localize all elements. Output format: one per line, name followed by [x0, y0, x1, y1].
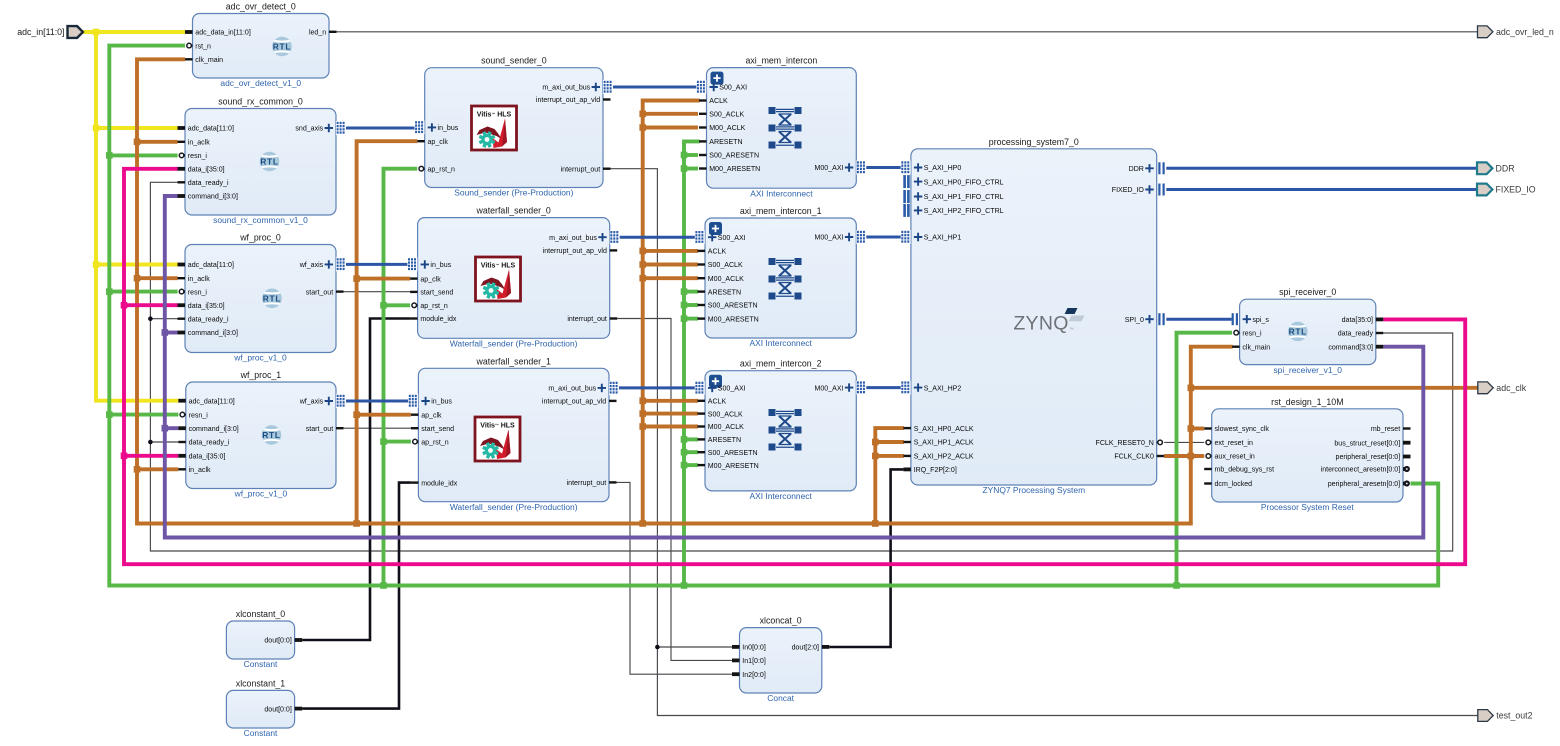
- wire xlconstant_1 dout to waterfall_sender_1 module_idx: [302, 483, 411, 709]
- svg-text:interconnect_aresetn[0:0]: interconnect_aresetn[0:0]: [1321, 467, 1401, 474]
- svg-text:ap_clk: ap_clk: [421, 412, 442, 419]
- pin interrupt_out (waterfall_sender_0, right): [567, 316, 617, 323]
- pin S00_ACLK (axi_mem_intercon_1, left): [698, 262, 743, 269]
- pin rst_n (adc_ovr_detect_0, left): [187, 43, 211, 50]
- svg-text:resn_i: resn_i: [188, 153, 208, 160]
- svg-text:Concat: Concat: [767, 693, 794, 703]
- block axi_mem_intercon_2: [695, 359, 867, 501]
- svg-text:RTL: RTL: [273, 42, 291, 52]
- svg-text:spi_receiver_0: spi_receiver_0: [1279, 287, 1336, 297]
- pin In0[0:0] (xlconcat_0, left): [732, 645, 766, 652]
- svg-text:M00_ACLK: M00_ACLK: [708, 276, 744, 283]
- svg-text:interrupt_out_ap_vld: interrupt_out_ap_vld: [536, 97, 600, 104]
- svg-text:S00_ARESETN: S00_ARESETN: [708, 450, 758, 457]
- junction adc_in at sound_rx_common: [93, 125, 100, 132]
- svg-text:dout[0:0]: dout[0:0]: [264, 706, 291, 713]
- junction clk at S00_ACLK intercon: [639, 111, 646, 118]
- wire clk branch wf_proc_0 in_aclk: [137, 276, 178, 280]
- wire adc_in to adc_ovr_detect adc_data_in: [83, 30, 185, 34]
- pin peripheral_aresetn[0:0] (rst_design_1_10M, right): [1328, 480, 1410, 488]
- svg-text:M00_ARESETN: M00_ARESETN: [708, 316, 759, 323]
- pin adc_data[11:0] (sound_rx_common_0, left): [178, 126, 234, 133]
- svg-text:in_aclk: in_aclk: [188, 140, 210, 147]
- svg-text:led_n: led_n: [309, 30, 326, 37]
- block wf_proc_0: [178, 233, 347, 363]
- svg-text:Processor System Reset: Processor System Reset: [1261, 502, 1354, 512]
- svg-text:wf_axis: wf_axis: [299, 399, 324, 406]
- bus ZYNQ SPI_0 to spi_receiver spi_s: [1166, 318, 1231, 321]
- svg-text:wf_axis: wf_axis: [299, 262, 324, 269]
- junction data at wf_proc_0: [121, 302, 128, 309]
- bus waterfall_sender_0 m_axi to intercon1 S00_AXI: [619, 236, 695, 239]
- svg-text:interrupt_out_ap_vld: interrupt_out_ap_vld: [542, 399, 606, 406]
- svg-text:adc_ovr_detect_0: adc_ovr_detect_0: [226, 2, 296, 12]
- pin ap_clk (waterfall_sender_0, left): [410, 276, 441, 283]
- svg-text:AXI Interconnect: AXI Interconnect: [749, 491, 812, 501]
- wire waterfall_sender_0 interrupt_out to xlconcat In1: [617, 319, 732, 661]
- external interface port DDR: [1477, 162, 1515, 174]
- expand icon axi_mem_intercon_2: [709, 375, 722, 388]
- svg-text:dcm_locked: dcm_locked: [1215, 481, 1253, 488]
- block spi_receiver_0: [1232, 287, 1384, 375]
- junction resetn at ARESETN intercon2: [681, 436, 688, 443]
- junction clk at M00_ACLK intercon1: [639, 275, 646, 282]
- svg-text:M00_AXI: M00_AXI: [815, 165, 844, 172]
- svg-text:snd_axis: snd_axis: [295, 126, 323, 133]
- pin data_i[35:0] (wf_proc_0, left): [178, 303, 225, 310]
- junction clk trunk riser2: [639, 520, 646, 527]
- svg-text:interrupt_out: interrupt_out: [567, 480, 607, 487]
- svg-text:data_ready_i: data_ready_i: [188, 180, 229, 187]
- svg-text:data_i[35:0]: data_i[35:0]: [188, 303, 225, 310]
- pin mb_debug_sys_rst (rst_design_1_10M, left): [1204, 467, 1274, 474]
- svg-text:AXI Interconnect: AXI Interconnect: [750, 188, 813, 198]
- svg-text:S00_AXI: S00_AXI: [719, 85, 747, 92]
- pin data_ready_i (sound_rx_common_0, left): [178, 180, 229, 187]
- svg-text:sound_sender_0: sound_sender_0: [481, 56, 547, 66]
- junction resetn at S00_ARESETN intercon1: [681, 302, 688, 309]
- pin dout[2:0] (xlconcat_0, right): [792, 645, 830, 652]
- pin start_out (wf_proc_0, right): [306, 289, 344, 296]
- pin M00_AXI (axi_mem_intercon_2, right): [815, 381, 867, 395]
- pin in_bus (waterfall_sender_1, left): [408, 394, 452, 408]
- pin resn_i (sound_rx_common_0, left): [179, 153, 207, 160]
- wire clk branch S00_ACLK intercon2: [643, 412, 698, 416]
- pin ap_clk (sound_sender_0, left): [417, 139, 448, 146]
- svg-text:axi_mem_intercon: axi_mem_intercon: [745, 56, 817, 66]
- svg-text:axi_mem_intercon_1: axi_mem_intercon_1: [740, 206, 822, 216]
- IP icon sound_rx_common_0: [259, 152, 281, 172]
- pin ap_clk (waterfall_sender_1, left): [411, 412, 442, 419]
- svg-text:spi_s: spi_s: [1252, 317, 1269, 324]
- wire clk branch waterfall_sender_1 ap_clk: [357, 413, 411, 417]
- wire resetn riser for HLS senders: [384, 169, 418, 586]
- junction resetn at S00_ARESETN intercon: [681, 152, 688, 159]
- svg-text:data_ready_i: data_ready_i: [189, 440, 230, 447]
- junction resetn at M00_ARESETN intercon2: [681, 462, 688, 469]
- svg-text:waterfall_sender_0: waterfall_sender_0: [475, 206, 550, 216]
- wire command branch wf_proc_1 command_i: [165, 426, 179, 430]
- pin m_axi_out_bus (waterfall_sender_1, right): [548, 381, 619, 395]
- wire data_ready branch to wf_proc_1: [150, 441, 178, 443]
- svg-text:S_AXI_HP0: S_AXI_HP0: [924, 165, 962, 172]
- svg-text:FIXED_IO: FIXED_IO: [1112, 187, 1145, 194]
- wire sound_sender_0 interrupt_out down to test_out2: [611, 169, 1478, 716]
- svg-text:dout[2:0]: dout[2:0]: [792, 645, 819, 652]
- wire clk riser ZYNQ HP ACLKs: [875, 428, 904, 523]
- junction clk at sound_rx: [134, 139, 141, 146]
- pin M00_ARESETN (axi_mem_intercon_1, left): [698, 316, 759, 323]
- pin command[3:0] (spi_receiver_0, right): [1328, 344, 1383, 351]
- svg-text:command_i[3:0]: command_i[3:0]: [188, 194, 238, 201]
- IP icon waterfall_sender_0: [476, 257, 521, 301]
- pin S_AXI_HP2 (processing_system7_0, left): [901, 381, 962, 395]
- pin S00_ARESETN (axi_mem_intercon_1, left): [698, 303, 758, 310]
- junction clk at S00_ACLK intercon2: [639, 410, 646, 417]
- svg-text:S_AXI_HP0_FIFO_CTRL: S_AXI_HP0_FIFO_CTRL: [924, 179, 1004, 186]
- wire resetn branch S00_ARESETN intercon1: [684, 303, 698, 307]
- wire clk branch M00_ACLK intercon1: [643, 276, 698, 280]
- junction resetn trunk riser3: [1173, 582, 1180, 589]
- svg-text:data_ready_i: data_ready_i: [188, 316, 229, 323]
- svg-text:S00_AXI: S00_AXI: [718, 386, 746, 393]
- svg-text:data_i[35:0]: data_i[35:0]: [189, 454, 226, 461]
- junction clk at ACLK intercon2: [639, 398, 646, 405]
- svg-text:module_idx: module_idx: [421, 480, 458, 487]
- wire peripheral_aresetn trunk: [109, 46, 1438, 586]
- pin FIXED_IO (processing_system7_0, right): [1112, 184, 1165, 196]
- wire FCLK_CLK0 trunk: [137, 59, 1233, 523]
- pin in_aclk (wf_proc_1, left): [178, 467, 211, 474]
- pin dout[0:0] (xlconstant_1, right): [264, 706, 302, 713]
- svg-text:xlconstant_0: xlconstant_0: [236, 609, 285, 619]
- junction resetn at sound_rx_common: [106, 152, 113, 159]
- svg-text:rst_n: rst_n: [195, 43, 211, 50]
- wire clk branch S_AXI_HP1_ACLK: [875, 440, 904, 444]
- pin In1[0:0] (xlconcat_0, left): [732, 658, 766, 665]
- svg-text:rst_design_1_10M: rst_design_1_10M: [1271, 397, 1343, 407]
- pin interrupt_out (sound_sender_0, right): [561, 166, 611, 173]
- junction clk at waterfall_sender_1: [353, 411, 360, 418]
- wire data_ready branch to wf_proc_0: [150, 318, 177, 320]
- svg-text:adc_data[11:0]: adc_data[11:0]: [189, 398, 235, 405]
- wire clk branch slowest_sync_clk: [1191, 427, 1204, 431]
- svg-text:Waterfall_sender (Pre-Producti: Waterfall_sender (Pre-Production): [450, 502, 578, 512]
- svg-text:RTL: RTL: [260, 157, 278, 167]
- wire resetn riser for interconnects: [684, 141, 700, 585]
- pin S_AXI_HP0 (processing_system7_0, left): [901, 161, 962, 175]
- svg-text:FCLK_CLK0: FCLK_CLK0: [1114, 454, 1154, 461]
- pin M00_ARESETN (axi_mem_intercon_2, left): [698, 463, 759, 470]
- svg-text:S_AXI_HP2_ACLK: S_AXI_HP2_ACLK: [914, 454, 974, 461]
- pin S_AXI_HP1 (processing_system7_0, left): [901, 230, 962, 244]
- svg-text:S00_ARESETN: S00_ARESETN: [708, 303, 758, 310]
- bus intercon1 M00_AXI to ZYNQ S_AXI_HP1: [866, 236, 901, 239]
- block xlconcat_0: [732, 616, 829, 704]
- svg-text:sound_rx_common_0: sound_rx_common_0: [218, 97, 303, 107]
- junction resetn at wf_proc_0: [106, 288, 113, 295]
- pin clk_main (spi_receiver_0, left): [1232, 344, 1270, 351]
- svg-text:SPI_0: SPI_0: [1125, 317, 1144, 324]
- svg-text:interrupt_out_ap_vld: interrupt_out_ap_vld: [543, 248, 607, 255]
- pin interrupt_out_ap_vld (waterfall_sender_0, right): [543, 248, 618, 255]
- pin adc_data_in[11:0] (adc_ovr_detect_0, left): [185, 30, 251, 37]
- svg-text:module_idx: module_idx: [420, 316, 457, 323]
- wire clk branch S00_ACLK intercon: [643, 112, 698, 116]
- junction resetn at M00_ARESETN intercon1: [681, 315, 688, 322]
- junction clk at HP2_ACLK: [872, 453, 879, 460]
- pin M00_AXI (axi_mem_intercon_1, right): [815, 230, 867, 244]
- svg-text:waterfall_sender_1: waterfall_sender_1: [476, 356, 551, 366]
- pin adc_data[11:0] (wf_proc_0, left): [178, 262, 234, 269]
- junction interrupt_out net at In0 branch: [655, 645, 660, 650]
- svg-text:Sound_sender (Pre-Production): Sound_sender (Pre-Production): [454, 188, 573, 198]
- svg-text:clk_main: clk_main: [195, 57, 223, 64]
- svg-text:ap_rst_n: ap_rst_n: [420, 303, 448, 310]
- svg-text:RTL: RTL: [1289, 327, 1307, 337]
- pin slowest_sync_clk (rst_design_1_10M, left): [1204, 426, 1269, 433]
- wire clk branch ACLK intercon1: [643, 249, 698, 253]
- pin ARESETN (axi_mem_intercon, left): [699, 139, 743, 146]
- svg-text:mb_reset: mb_reset: [1371, 426, 1400, 433]
- svg-text:m_axi_out_bus: m_axi_out_bus: [548, 386, 596, 393]
- block xlconstant_1: [226, 678, 302, 738]
- pin M00_ARESETN (axi_mem_intercon, left): [699, 166, 760, 173]
- svg-text:ARESETN: ARESETN: [708, 289, 741, 296]
- svg-text:S_AXI_HP2: S_AXI_HP2: [924, 385, 962, 392]
- IP icon axi_mem_intercon: [769, 107, 802, 149]
- junction command at wf_proc_0: [162, 329, 169, 336]
- IP icon axi_mem_intercon_2: [769, 409, 802, 451]
- svg-text:command_i[3:0]: command_i[3:0]: [189, 426, 239, 433]
- svg-text:processing_system7_0: processing_system7_0: [989, 137, 1079, 147]
- pin S_AXI_HP1_ACLK (processing_system7_0, left): [903, 440, 974, 447]
- svg-text:axi_mem_intercon_2: axi_mem_intercon_2: [740, 359, 822, 369]
- svg-text:IRQ_F2P[2:0]: IRQ_F2P[2:0]: [914, 467, 957, 474]
- block wf_proc_1: [178, 370, 346, 499]
- block waterfall_sender_0: [407, 206, 619, 349]
- wire clk branch S00_ACLK intercon1: [643, 263, 698, 267]
- external input port adc_in[11:0]: [17, 26, 83, 38]
- pin start_out (wf_proc_1, right): [306, 426, 344, 433]
- block adc_ovr_detect_0: [185, 2, 337, 89]
- pin in_aclk (wf_proc_0, left): [178, 276, 211, 283]
- svg-text:S00_ACLK: S00_ACLK: [709, 112, 744, 119]
- svg-text:clk_main: clk_main: [1242, 344, 1270, 351]
- svg-text:start_send: start_send: [421, 426, 454, 433]
- svg-text:interrupt_out: interrupt_out: [567, 316, 607, 323]
- svg-text:start_out: start_out: [306, 426, 333, 433]
- pin in_aclk (sound_rx_common_0, left): [178, 140, 211, 147]
- block waterfall_sender_1: [408, 356, 619, 512]
- svg-text:In2[0:0]: In2[0:0]: [742, 672, 766, 679]
- pin in_bus (sound_sender_0, left): [415, 120, 459, 134]
- svg-text:ACLK: ACLK: [708, 249, 727, 256]
- wire command branch wf_proc_0 command_i: [165, 331, 178, 335]
- wire resetn branch M00_ARESETN intercon: [684, 167, 698, 171]
- svg-text:™: ™: [1069, 327, 1074, 333]
- pin mb_reset (rst_design_1_10M, right): [1371, 426, 1411, 433]
- svg-text:S_AXI_HP1_FIFO_CTRL: S_AXI_HP1_FIFO_CTRL: [924, 194, 1004, 201]
- pin S00_ACLK (axi_mem_intercon_2, left): [698, 411, 743, 418]
- wire resetn branch S00_ARESETN intercon: [684, 153, 698, 157]
- svg-text:M00_ACLK: M00_ACLK: [708, 424, 744, 431]
- bus intercon M00_AXI to ZYNQ S_AXI_HP0: [866, 166, 901, 169]
- junction clk at slowest_sync_clk: [1188, 425, 1195, 432]
- svg-text:wf_proc_1: wf_proc_1: [240, 370, 282, 380]
- svg-text:adc_data[11:0]: adc_data[11:0]: [188, 262, 234, 269]
- pin dcm_locked (rst_design_1_10M, left): [1204, 481, 1252, 488]
- wire resetn branch waterfall_sender_0 ap_rst_n: [384, 303, 411, 307]
- block rst_design_1_10M: [1204, 397, 1410, 512]
- svg-text:peripheral_reset[0:0]: peripheral_reset[0:0]: [1336, 454, 1401, 461]
- wire xlconcat dout to ZYNQ IRQ_F2P: [829, 469, 903, 647]
- svg-text:interrupt_out: interrupt_out: [561, 166, 601, 173]
- svg-text:ext_reset_in: ext_reset_in: [1215, 440, 1253, 447]
- pin ARESETN (axi_mem_intercon_2, left): [698, 437, 742, 444]
- svg-text:Waterfall_sender (Pre-Producti: Waterfall_sender (Pre-Production): [450, 339, 578, 349]
- svg-text:S00_ACLK: S00_ACLK: [708, 262, 743, 269]
- pin spi_s (spi_receiver_0, left): [1232, 313, 1270, 325]
- pin interrupt_out_ap_vld (waterfall_sender_1, right): [542, 399, 617, 406]
- svg-text:test_out2: test_out2: [1496, 711, 1532, 721]
- svg-text:adc_data_in[11:0]: adc_data_in[11:0]: [195, 30, 251, 37]
- svg-text:S_AXI_HP2_FIFO_CTRL: S_AXI_HP2_FIFO_CTRL: [924, 208, 1004, 215]
- junction clk at HP1_ACLK: [872, 439, 879, 446]
- svg-text:in_aclk: in_aclk: [189, 467, 211, 474]
- svg-text:RTL: RTL: [263, 293, 281, 303]
- junction resetn at waterfall_sender_0: [380, 302, 387, 309]
- pin clk_main (adc_ovr_detect_0, left): [185, 57, 223, 64]
- IP icon waterfall_sender_1: [475, 417, 520, 461]
- pin S_AXI_HP2_FIFO_CTRL (processing_system7_0, left): [903, 204, 1003, 217]
- block axi_mem_intercon_1: [695, 206, 867, 348]
- svg-text:adc_ovr_detect_v1_0: adc_ovr_detect_v1_0: [220, 78, 301, 88]
- junction clk at M00_ACLK intercon2: [639, 423, 646, 430]
- svg-text:In1[0:0]: In1[0:0]: [742, 658, 766, 665]
- wire data branch wf_proc_1 data_i: [124, 454, 178, 458]
- pin S_AXI_HP0_FIFO_CTRL (processing_system7_0, left): [903, 175, 1003, 188]
- junction data_ready at wf_proc_1: [148, 440, 153, 445]
- bus intercon2 M00_AXI to ZYNQ S_AXI_HP2: [866, 386, 901, 389]
- junction clk at wf_proc_1: [134, 466, 141, 473]
- block sound_sender_0: [415, 56, 614, 198]
- wire resetn branch ARESETN intercon1: [684, 290, 698, 294]
- pin DDR (processing_system7_0, right): [1129, 162, 1165, 174]
- pin data_ready_i (wf_proc_0, left): [178, 316, 229, 323]
- svg-text:AXI Interconnect: AXI Interconnect: [749, 338, 812, 348]
- pin resn_i (wf_proc_0, left): [179, 289, 207, 296]
- svg-text:Constant: Constant: [244, 659, 278, 669]
- expand icon axi_mem_intercon_1: [709, 222, 722, 235]
- bus sound_sender m_axi_out_bus to intercon S00_AXI: [613, 86, 697, 89]
- junction clk at wf_proc_0: [134, 275, 141, 282]
- junction clk at waterfall_sender_0: [353, 275, 360, 282]
- svg-text:in_bus: in_bus: [431, 399, 452, 406]
- wire clk riser interconnects: [643, 101, 700, 524]
- svg-text:wf_proc_v1_0: wf_proc_v1_0: [234, 489, 288, 499]
- svg-text:ARESETN: ARESETN: [708, 437, 741, 444]
- wire FCLK_RESET0_N to ext_reset_in: [1164, 441, 1204, 443]
- block sound_rx_common_0: [178, 97, 347, 226]
- svg-text:xlconcat_0: xlconcat_0: [760, 616, 802, 626]
- svg-text:S00_ARESETN: S00_ARESETN: [709, 153, 759, 160]
- pin dout[0:0] (xlconstant_0, right): [264, 638, 302, 645]
- pin data_ready_i (wf_proc_1, left): [178, 440, 229, 447]
- external interface port FIXED_IO: [1477, 184, 1536, 196]
- pin S_AXI_HP2_ACLK (processing_system7_0, left): [903, 454, 974, 461]
- bus ZYNQ FIXED_IO to FIXED_IO port: [1166, 188, 1477, 191]
- junction command at wf_proc_1: [162, 425, 169, 432]
- svg-text:data_ready: data_ready: [1338, 331, 1374, 338]
- IP icon processing_system7_0: [1013, 308, 1084, 335]
- wire resetn branch M00_ARESETN intercon1: [684, 317, 698, 321]
- svg-text:S_AXI_HP1_ACLK: S_AXI_HP1_ACLK: [914, 440, 974, 447]
- IP icon adc_ovr_detect_0: [271, 37, 293, 57]
- pin command_i[3:0] (sound_rx_common_0, left): [178, 194, 238, 201]
- wire clk branch M00_ACLK intercon: [643, 126, 698, 130]
- expand icon axi_mem_intercon: [711, 72, 724, 85]
- svg-text:ap_rst_n: ap_rst_n: [421, 439, 449, 446]
- wire adc_in vertical trunk to wf_proc_1: [96, 32, 178, 401]
- wire spi command[3:0] trunk: [165, 196, 1424, 538]
- svg-text:adc_clk: adc_clk: [1496, 383, 1526, 393]
- junction resetn trunk riser2: [681, 582, 688, 589]
- svg-text:resn_i: resn_i: [188, 289, 208, 296]
- svg-text:in_bus: in_bus: [430, 262, 451, 269]
- wire clk branch ACLK intercon2: [643, 399, 698, 403]
- svg-text:start_send: start_send: [420, 290, 453, 297]
- svg-text:ZYNQ7 Processing System: ZYNQ7 Processing System: [982, 485, 1085, 495]
- wire resetn branch ARESETN intercon2: [684, 437, 698, 441]
- pin M00_ACLK (axi_mem_intercon_1, left): [698, 276, 745, 283]
- IP icon sound_sender_0: [472, 106, 517, 150]
- pin peripheral_reset[0:0] (rst_design_1_10M, right): [1336, 454, 1411, 461]
- pin In2[0:0] (xlconcat_0, left): [732, 672, 766, 679]
- svg-text:S_AXI_HP0_ACLK: S_AXI_HP0_ACLK: [914, 426, 974, 433]
- svg-text:adc_ovr_led_n: adc_ovr_led_n: [1496, 27, 1554, 37]
- junction resetn at wf_proc_1: [106, 411, 113, 418]
- wire net data_ready trunk: [150, 182, 1452, 551]
- wire spi data[35:0] trunk: [124, 169, 1465, 564]
- wire resetn branch waterfall_sender_1 ap_rst_n: [384, 440, 411, 444]
- svg-text:Constant: Constant: [244, 728, 278, 738]
- pin IRQ_F2P[2:0] (processing_system7_0, left): [903, 467, 956, 474]
- svg-text:adc_in[11:0]: adc_in[11:0]: [17, 27, 64, 37]
- svg-text:M00_ARESETN: M00_ARESETN: [708, 463, 759, 470]
- svg-text:m_axi_out_bus: m_axi_out_bus: [549, 235, 597, 242]
- pin aux_reset_in (rst_design_1_10M, left): [1206, 454, 1255, 461]
- svg-text:in_bus: in_bus: [438, 125, 459, 132]
- pin S_AXI_HP0_ACLK (processing_system7_0, left): [903, 426, 974, 433]
- external output port test_out2: [1478, 710, 1533, 722]
- block axi_mem_intercon: [696, 56, 866, 199]
- pin S00_ARESETN (axi_mem_intercon_2, left): [698, 450, 758, 457]
- svg-text:spi_receiver_v1_0: spi_receiver_v1_0: [1273, 365, 1342, 375]
- svg-text:resn_i: resn_i: [189, 412, 209, 419]
- pin command_i[3:0] (wf_proc_0, left): [178, 330, 238, 337]
- pin command_i[3:0] (wf_proc_1, left): [178, 426, 238, 433]
- pin ACLK (axi_mem_intercon_1, left): [698, 249, 727, 256]
- wire branch to xlconcat In0: [657, 646, 732, 648]
- junction resetn at S00_ARESETN intercon2: [681, 449, 688, 456]
- external output port adc_ovr_led_n: [1478, 26, 1554, 38]
- pin adc_data[11:0] (wf_proc_1, left): [178, 398, 234, 405]
- pin S00_AXI (axi_mem_intercon_2, left): [695, 381, 746, 395]
- svg-text:resn_i: resn_i: [1242, 330, 1262, 337]
- pin M00_AXI (axi_mem_intercon, right): [815, 161, 867, 175]
- wire wf_proc_0 start_out to waterfall_sender_0 start_send: [344, 291, 411, 293]
